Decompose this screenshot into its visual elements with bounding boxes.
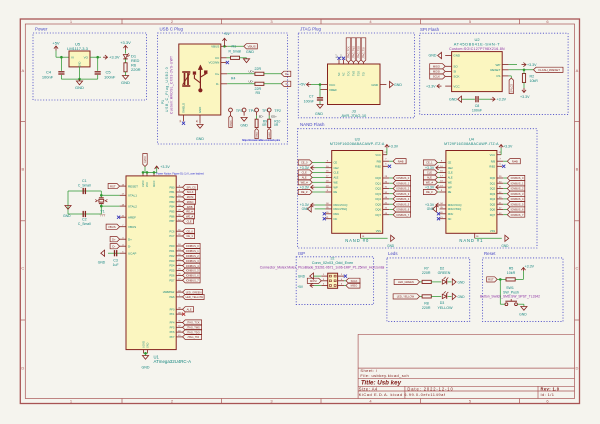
svg-text:1uF: 1uF xyxy=(113,263,119,267)
svg-text:KiCad E.D.A. kicad 6.99.0-0ef: KiCad E.D.A. kicad 6.99.0-0efc1149af xyxy=(359,392,446,397)
svg-text:ALE: ALE xyxy=(427,176,432,180)
svg-text:NC: NC xyxy=(338,72,341,76)
svg-text:IONBUS_7: IONBUS_7 xyxy=(186,279,199,283)
svg-text:D-: D- xyxy=(216,82,219,86)
svg-text:IONBUS_1: IONBUS_1 xyxy=(511,181,524,185)
svg-text:R/B: R/B xyxy=(491,159,496,163)
svg-text:D+: D+ xyxy=(112,237,116,241)
svg-text:NC: NC xyxy=(448,217,452,221)
svg-text:JTAG Plug: JTAG Plug xyxy=(300,27,321,32)
svg-text:TP4: TP4 xyxy=(249,109,256,113)
svg-text:PC6: PC6 xyxy=(169,229,175,233)
svg-text:DQ5: DQ5 xyxy=(490,202,496,206)
svg-text:R/#B: R/#B xyxy=(398,159,404,163)
svg-text:WE: WE xyxy=(448,180,452,184)
svg-text:ALE: ALE xyxy=(334,176,339,180)
svg-text:PF7: PF7 xyxy=(170,335,175,339)
svg-text:RE_#: RE_# xyxy=(186,210,193,214)
svg-text:IONBUS_1: IONBUS_1 xyxy=(396,181,409,185)
svg-text:PF1: PF1 xyxy=(170,312,175,316)
svg-text:UVCC: UVCC xyxy=(144,156,147,163)
svg-text:D+: D+ xyxy=(128,237,132,241)
svg-text:PB1: PB1 xyxy=(169,190,174,194)
svg-text:+3.3V: +3.3V xyxy=(425,166,435,170)
svg-text:VBUS: VBUS xyxy=(128,225,136,229)
svg-text:WP: WP xyxy=(496,63,501,67)
svg-text:TDO: TDO xyxy=(358,71,361,76)
svg-text:SCLK: SCLK xyxy=(433,75,440,79)
svg-text:+3.3V: +3.3V xyxy=(160,165,170,169)
svg-text:IONBUS_2: IONBUS_2 xyxy=(511,187,524,191)
svg-text:RESET: RESET xyxy=(490,68,500,72)
svg-text:PF5: PF5 xyxy=(170,325,175,329)
svg-text:HWB/PE2: HWB/PE2 xyxy=(163,290,175,294)
svg-text:CE2: CE2 xyxy=(334,166,340,170)
svg-text:PF6: PF6 xyxy=(170,330,175,334)
svg-text:+3.3V: +3.3V xyxy=(503,145,513,149)
svg-text:SHIELD: SHIELD xyxy=(182,103,186,113)
svg-text:TP3: TP3 xyxy=(236,109,243,113)
svg-text:File: usbkey.kicad_sch: File: usbkey.kicad_sch xyxy=(360,373,409,378)
svg-text:FLASH_#RESET: FLASH_#RESET xyxy=(538,68,560,72)
svg-text:CE_1: CE_1 xyxy=(426,161,433,165)
svg-text:VSS: VSS xyxy=(490,229,495,233)
svg-text:Leds: Leds xyxy=(388,251,398,256)
svg-text:IONBUS_5: IONBUS_5 xyxy=(511,202,524,206)
svg-text:220R: 220R xyxy=(131,67,141,72)
svg-text:LED_GREEN: LED_GREEN xyxy=(186,290,202,294)
svg-text:UVCC: UVCC xyxy=(142,180,145,187)
svg-text:GND: GND xyxy=(394,83,402,87)
svg-text:WE_#: WE_# xyxy=(186,215,194,219)
svg-text:VCC: VCC xyxy=(375,153,381,157)
svg-text:GND: GND xyxy=(63,214,71,218)
svg-text:C2: C2 xyxy=(82,218,87,222)
svg-text:WP: WP xyxy=(334,185,338,189)
svg-text:PB4: PB4 xyxy=(169,205,174,209)
svg-text:R/#B: R/#B xyxy=(187,205,193,209)
svg-text:GND: GND xyxy=(315,112,323,116)
svg-text:IONBUS_4: IONBUS_4 xyxy=(511,197,524,201)
svg-text:ISP: ISP xyxy=(298,251,305,256)
svg-text:CS: CS xyxy=(496,74,500,78)
svg-text:MOSI: MOSI xyxy=(187,195,194,199)
svg-text:VBUS: VBUS xyxy=(211,45,219,49)
svg-text:CLE: CLE xyxy=(448,171,453,175)
svg-text:D2: D2 xyxy=(440,266,445,270)
svg-text:XTAL2: XTAL2 xyxy=(128,204,137,208)
svg-text:JTAG_TCK: JTAG_TCK xyxy=(187,321,200,325)
svg-text:IONBUS_0: IONBUS_0 xyxy=(511,176,524,180)
svg-text:DQ2: DQ2 xyxy=(490,187,496,191)
svg-text:PD1: PD1 xyxy=(169,249,175,253)
svg-text:TDI: TDI xyxy=(363,72,366,76)
svg-text:NC: NC xyxy=(334,217,338,221)
svg-text:CLE: CLE xyxy=(302,171,307,175)
svg-text:PD0: PD0 xyxy=(169,244,175,248)
svg-text:WE: WE xyxy=(334,180,338,184)
svg-text:VCC: VCC xyxy=(146,182,149,187)
svg-text:VSS: VSS xyxy=(376,229,381,233)
svg-text:IONBUS_4: IONBUS_4 xyxy=(186,264,199,268)
svg-text:TP2: TP2 xyxy=(274,109,281,113)
svg-text:R/B2: R/B2 xyxy=(375,164,381,168)
svg-text:IONBUS_5: IONBUS_5 xyxy=(186,269,199,273)
svg-text:CE2: CE2 xyxy=(448,166,454,170)
svg-text:JTAG_TDO: JTAG_TDO xyxy=(358,46,361,58)
svg-text:SCLK: SCLK xyxy=(351,279,358,283)
svg-text:GND: GND xyxy=(387,244,395,248)
svg-text:PE6: PE6 xyxy=(169,295,174,299)
svg-text:R8: R8 xyxy=(424,301,429,305)
svg-text:R/B: R/B xyxy=(377,159,382,163)
svg-text:DQ4: DQ4 xyxy=(490,197,496,201)
svg-text:+3.3V: +3.3V xyxy=(520,95,530,99)
svg-text:IONBUS_7: IONBUS_7 xyxy=(511,213,524,217)
svg-text:ED-: ED- xyxy=(259,114,264,118)
svg-text:0R: 0R xyxy=(274,123,279,127)
svg-text:100nF: 100nF xyxy=(304,100,315,104)
svg-text:GND: GND xyxy=(371,83,379,87)
svg-text:C: C xyxy=(21,266,24,271)
svg-text:GND: GND xyxy=(427,207,435,211)
svg-text:DQ1: DQ1 xyxy=(490,181,496,185)
svg-text:DNU: DNU xyxy=(334,212,340,216)
svg-text:GREEN: GREEN xyxy=(438,271,451,275)
svg-text:WE_#: WE_# xyxy=(426,181,434,185)
svg-text:https://mrovercables.com/usb-p: https://mrovercables.com/usb-pins xyxy=(242,139,281,142)
svg-text:GND: GND xyxy=(147,342,150,348)
svg-text:ATmega32U4RC-A: ATmega32U4RC-A xyxy=(154,359,192,364)
svg-text:+3.3V: +3.3V xyxy=(497,98,507,102)
svg-text:NAND Flash: NAND Flash xyxy=(300,122,325,127)
svg-text:NC: NC xyxy=(343,72,346,76)
svg-text:GND: GND xyxy=(98,261,106,265)
svg-text:CE_0: CE_0 xyxy=(301,161,308,165)
svg-text:+3.3V: +3.3V xyxy=(527,63,537,67)
svg-text:+3.3V: +3.3V xyxy=(525,264,535,268)
svg-text:RST: RST xyxy=(110,184,116,188)
svg-text:+3.3V: +3.3V xyxy=(426,84,436,88)
svg-text:CLE: CLE xyxy=(187,219,192,223)
svg-text:LED_YELLOW: LED_YELLOW xyxy=(186,295,204,299)
svg-text:IONBUS_2: IONBUS_2 xyxy=(186,254,199,258)
svg-text:CE_0: CE_0 xyxy=(186,229,193,233)
svg-text:DQ6: DQ6 xyxy=(490,208,496,212)
svg-text:DQ2: DQ2 xyxy=(376,187,382,191)
svg-text:D-: D- xyxy=(112,244,115,248)
svg-text:LM1117-3.3: LM1117-3.3 xyxy=(67,46,89,51)
svg-text:GND: GND xyxy=(75,85,84,90)
svg-text:PF0: PF0 xyxy=(170,307,175,311)
svg-text:SPI Flash: SPI Flash xyxy=(420,27,440,32)
svg-text:CE: CE xyxy=(334,161,338,165)
svg-text:Power Notice: Figure DL-1) V_u: Power Notice: Figure DL-1) V_user latche… xyxy=(156,172,204,175)
svg-text:D+: D+ xyxy=(285,72,289,76)
svg-text:100nF: 100nF xyxy=(104,74,116,79)
svg-text:R5: R5 xyxy=(255,91,260,95)
svg-text:C_Small: C_Small xyxy=(78,184,91,188)
svg-text:R/B2: R/B2 xyxy=(489,164,495,168)
svg-text:VCONN: VCONN xyxy=(208,61,219,65)
svg-text:VBUS: VBUS xyxy=(248,45,256,49)
svg-text:IONBUS_3: IONBUS_3 xyxy=(186,259,199,263)
svg-text:U4: U4 xyxy=(469,136,475,141)
svg-text:PB5: PB5 xyxy=(169,210,174,214)
svg-text:SO: SO xyxy=(453,65,458,69)
svg-text:AT45DB641E-SHN-T: AT45DB641E-SHN-T xyxy=(454,41,501,46)
svg-text:IONBUS_3: IONBUS_3 xyxy=(511,192,524,196)
svg-text:IONBUS_6: IONBUS_6 xyxy=(186,274,199,278)
svg-text:DNU: DNU xyxy=(448,212,454,216)
svg-text:DQ5: DQ5 xyxy=(376,202,382,206)
svg-text:10kR: 10kR xyxy=(530,79,539,83)
svg-text:22R: 22R xyxy=(255,67,262,71)
svg-text:DQ4: DQ4 xyxy=(376,197,382,201)
svg-text:GND: GND xyxy=(298,274,306,278)
svg-text:Button_Switch_SMD:SW_SPST_TL33: Button_Switch_SMD:SW_SPST_TL3342 xyxy=(480,295,540,299)
svg-text:SCK: SCK xyxy=(453,75,459,79)
svg-text:MISO: MISO xyxy=(187,200,194,204)
svg-text:WP: WP xyxy=(448,185,452,189)
svg-text:0R: 0R xyxy=(262,123,267,127)
svg-text:R4: R4 xyxy=(231,76,235,80)
svg-text:IONBUS_4: IONBUS_4 xyxy=(396,197,409,201)
svg-text:D-: D- xyxy=(286,82,289,86)
svg-text:GND: GND xyxy=(198,107,202,113)
svg-text:YELLOW: YELLOW xyxy=(438,306,454,310)
svg-text:XTAL1: XTAL1 xyxy=(128,194,137,198)
svg-text:D3: D3 xyxy=(440,301,445,305)
svg-text:SW1: SW1 xyxy=(506,286,514,290)
svg-text:A: A xyxy=(576,68,579,73)
svg-text:JTAG_TDI: JTAG_TDI xyxy=(187,335,199,339)
svg-text:R2: R2 xyxy=(530,75,535,79)
svg-text:220R: 220R xyxy=(422,271,431,275)
svg-text:SPI_CS: SPI_CS xyxy=(510,84,513,93)
svg-text:R1: R1 xyxy=(232,45,237,49)
svg-text:SI: SI xyxy=(453,70,456,74)
svg-text:JTAG_TCK: JTAG_TCK xyxy=(348,46,351,58)
svg-text:PC7: PC7 xyxy=(169,234,175,238)
svg-text:DQ1: DQ1 xyxy=(376,181,382,185)
svg-text:GND: GND xyxy=(142,366,150,370)
svg-text:PB3: PB3 xyxy=(169,200,174,204)
svg-text:DQ7: DQ7 xyxy=(376,213,382,217)
svg-text:R/#B: R/#B xyxy=(512,159,518,163)
svg-text:DNU/VSSQ: DNU/VSSQ xyxy=(334,207,348,211)
svg-text:GND: GND xyxy=(302,207,310,211)
svg-text:10kR: 10kR xyxy=(507,271,516,275)
svg-text:B: B xyxy=(21,167,24,172)
svg-text:WE_#: WE_# xyxy=(301,181,309,185)
svg-text:+3.3V: +3.3V xyxy=(389,145,399,149)
svg-text:DQ3: DQ3 xyxy=(490,192,496,196)
svg-text:MT29F16G08ABACAWP-ITZ:A: MT29F16G08ABACAWP-ITZ:A xyxy=(330,142,385,146)
svg-text:CE_1: CE_1 xyxy=(186,234,193,238)
svg-text:PB7: PB7 xyxy=(169,219,174,223)
svg-text:C3: C3 xyxy=(113,259,118,263)
svg-text:IONBUS_7: IONBUS_7 xyxy=(396,213,409,217)
svg-text:PD3: PD3 xyxy=(169,259,175,263)
svg-text:P1: P1 xyxy=(161,100,165,104)
svg-text:GND: GND xyxy=(246,50,254,54)
svg-text:+5V: +5V xyxy=(297,285,304,289)
svg-text:100nF: 100nF xyxy=(472,109,483,113)
svg-text:DQ3: DQ3 xyxy=(376,192,382,196)
svg-text:PD2: PD2 xyxy=(169,254,175,258)
svg-text:IONBUS_2: IONBUS_2 xyxy=(396,187,409,191)
svg-text:PD7: PD7 xyxy=(169,278,175,282)
svg-text:Custom:SOIC127P798X216-8N: Custom:SOIC127P798X216-8N xyxy=(449,47,505,51)
svg-text:IONBUS_1: IONBUS_1 xyxy=(186,249,199,253)
svg-text:D: D xyxy=(576,366,579,371)
svg-text:IONBUS_0: IONBUS_0 xyxy=(186,244,199,248)
svg-text:RE_#: RE_# xyxy=(426,190,433,194)
svg-text:DQ0: DQ0 xyxy=(490,176,496,180)
svg-text:JTAG_TMS: JTAG_TMS xyxy=(186,326,200,330)
svg-text:AVR-JTAG-10: AVR-JTAG-10 xyxy=(341,113,367,118)
svg-text:USB C Plug: USB C Plug xyxy=(160,27,184,32)
svg-text:RE_#: RE_# xyxy=(301,190,308,194)
svg-text:MT29F16G08ABACAWP-ITZ:A: MT29F16G08ABACAWP-ITZ:A xyxy=(444,142,499,146)
svg-text:Power: Power xyxy=(35,27,48,32)
svg-text:ED+: ED+ xyxy=(271,114,277,118)
svg-text:PB6: PB6 xyxy=(169,214,174,218)
svg-text:A: A xyxy=(21,68,24,73)
svg-text:RE: RE xyxy=(334,190,338,194)
svg-text:+5V: +5V xyxy=(223,32,230,36)
svg-text:Custom:HROSL_CX03-2VS-UWT: Custom:HROSL_CX03-2VS-UWT xyxy=(170,56,174,114)
svg-text:GND: GND xyxy=(458,280,466,284)
svg-text:DQ0: DQ0 xyxy=(376,176,382,180)
svg-text:VREF: VREF xyxy=(329,88,337,92)
svg-text:DQ7: DQ7 xyxy=(490,213,496,217)
svg-text:GND1: GND1 xyxy=(231,120,233,127)
svg-text:C1: C1 xyxy=(82,179,87,183)
svg-text:USB_C_Plug_USB2.0: USB_C_Plug_USB2.0 xyxy=(165,67,169,112)
svg-text:RE: RE xyxy=(448,190,452,194)
svg-text:PD6: PD6 xyxy=(169,274,175,278)
svg-text:RESET: RESET xyxy=(128,184,138,188)
svg-text:D-: D- xyxy=(128,244,131,248)
svg-text:+5V: +5V xyxy=(52,41,60,46)
svg-text:GND: GND xyxy=(429,54,437,58)
svg-text:PD5: PD5 xyxy=(169,269,175,273)
svg-text:UD-: UD- xyxy=(249,79,254,83)
svg-text:R5: R5 xyxy=(509,267,514,271)
svg-text:ALE: ALE xyxy=(448,176,453,180)
svg-text:SHLD: SHLD xyxy=(257,131,259,137)
svg-text:JTAG_TDI: JTAG_TDI xyxy=(363,47,366,58)
svg-text:SPI_CS: SPI_CS xyxy=(186,185,195,189)
svg-text:CLE: CLE xyxy=(427,171,432,175)
svg-text:GND: GND xyxy=(240,123,248,127)
svg-text:VO: VO xyxy=(84,56,89,60)
svg-text:+3.3V: +3.3V xyxy=(300,166,310,170)
svg-text:IONBUS_3: IONBUS_3 xyxy=(396,192,409,196)
svg-text:PB0: PB0 xyxy=(169,185,174,189)
svg-text:AREF: AREF xyxy=(128,215,136,219)
svg-text:N_C: N_C xyxy=(341,53,343,58)
svg-text:JTAG_TMS: JTAG_TMS xyxy=(353,46,356,59)
svg-text:TMS: TMS xyxy=(353,71,356,76)
svg-text:CE: CE xyxy=(448,161,452,165)
svg-text:Rev: 1.0: Rev: 1.0 xyxy=(541,386,560,391)
svg-text:AVCC: AVCC xyxy=(153,180,156,187)
svg-text:CLE: CLE xyxy=(334,171,339,175)
svg-text:N_C: N_C xyxy=(336,53,338,58)
svg-text:C7: C7 xyxy=(309,95,314,99)
svg-text:C_Small: C_Small xyxy=(78,222,91,226)
svg-text:JTAG_TDO: JTAG_TDO xyxy=(186,330,199,334)
svg-text:PD4: PD4 xyxy=(169,264,175,268)
svg-text:MOSI: MOSI xyxy=(433,70,440,74)
svg-text:Date: 2022-12-10: Date: 2022-12-10 xyxy=(407,386,453,391)
svg-text:D+: D+ xyxy=(215,72,219,76)
svg-text:LED_YELLOW: LED_YELLOW xyxy=(397,295,415,299)
svg-text:R7: R7 xyxy=(424,267,429,271)
svg-text:SCLK: SCLK xyxy=(187,190,194,194)
svg-text:PB2: PB2 xyxy=(169,195,174,199)
svg-text:J2: J2 xyxy=(330,256,334,260)
svg-text:DNU/VCCQ: DNU/VCCQ xyxy=(334,203,348,207)
svg-text:IONBUS_0: IONBUS_0 xyxy=(396,176,409,180)
svg-text:IONBUS_6: IONBUS_6 xyxy=(511,208,524,212)
svg-text:Connector_Molex:Molex_PicoBlad: Connector_Molex:Molex_PicoBlade_53261-06… xyxy=(260,266,385,270)
svg-text:Id: 1/1: Id: 1/1 xyxy=(541,392,555,397)
svg-text:GND: GND xyxy=(77,61,81,67)
svg-text:DNU/VSSQ: DNU/VSSQ xyxy=(448,207,462,211)
svg-text:U3: U3 xyxy=(355,136,361,141)
svg-text:GND: GND xyxy=(519,313,527,317)
svg-text:C: C xyxy=(576,266,579,271)
svg-text:UGND: UGND xyxy=(143,341,146,348)
svg-text:MISO: MISO xyxy=(351,284,358,288)
svg-text:+3.3V: +3.3V xyxy=(300,185,310,189)
svg-text:Size: A4: Size: A4 xyxy=(359,386,378,391)
svg-text:VCC: VCC xyxy=(490,153,496,157)
svg-text:DNU/VCCQ: DNU/VCCQ xyxy=(448,203,462,207)
svg-text:Conn_02x03_Odd_Even: Conn_02x03_Odd_Even xyxy=(312,261,354,265)
svg-text:RST: RST xyxy=(488,278,494,282)
svg-text:Reset: Reset xyxy=(484,251,496,256)
svg-text:MISO: MISO xyxy=(433,65,441,69)
svg-text:B: B xyxy=(576,167,579,172)
svg-text:GND: GND xyxy=(453,54,461,58)
svg-text:+3.3V: +3.3V xyxy=(120,40,131,45)
svg-text:IONBUS_5: IONBUS_5 xyxy=(396,202,409,206)
svg-text:C8: C8 xyxy=(475,104,480,108)
svg-text:MOSI: MOSI xyxy=(310,279,317,283)
svg-text:GND: GND xyxy=(121,80,130,85)
svg-text:+5V: +5V xyxy=(299,83,306,87)
svg-text:UCAP: UCAP xyxy=(128,251,136,255)
svg-text:LED_GREEN: LED_GREEN xyxy=(398,280,414,284)
svg-text:PF4: PF4 xyxy=(170,321,175,325)
svg-text:+3.3V: +3.3V xyxy=(109,55,120,60)
svg-text:SHLD: SHLD xyxy=(269,131,271,137)
svg-text:R_Small: R_Small xyxy=(229,50,242,54)
svg-text:D: D xyxy=(21,366,24,371)
svg-text:100nF: 100nF xyxy=(42,74,54,79)
svg-text:GND: GND xyxy=(501,244,509,248)
svg-text:VBUS: VBUS xyxy=(108,225,116,229)
svg-text:+3.3V: +3.3V xyxy=(425,185,435,189)
svg-text:VCC: VCC xyxy=(329,83,336,87)
svg-text:DQ6: DQ6 xyxy=(376,208,382,212)
svg-text:GND: GND xyxy=(196,137,204,141)
